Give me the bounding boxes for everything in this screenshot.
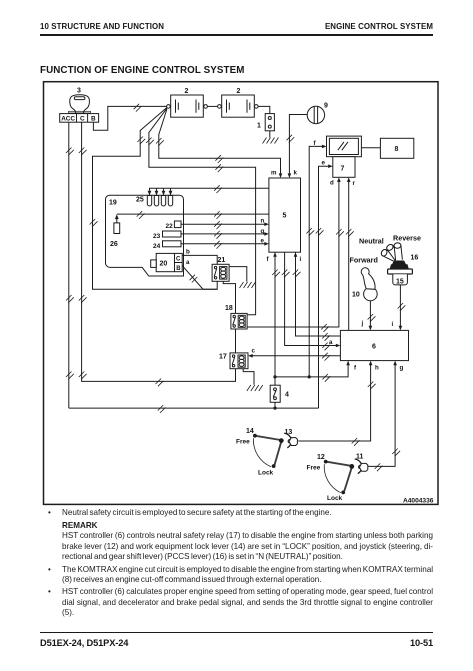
wire key B to battery terminal: [93, 104, 166, 130]
fuel control dial 10: [352, 268, 377, 301]
svg-text:Free: Free: [236, 439, 250, 446]
svg-text:e: e: [322, 160, 326, 167]
svg-text:20: 20: [160, 261, 168, 268]
svg-text:5: 5: [283, 213, 287, 220]
svg-text:e: e: [261, 238, 265, 245]
svg-text:f: f: [354, 365, 357, 372]
wire controller 5 middle pin to HST pin a: [282, 252, 341, 350]
junction wire y408 (ACC run to monitor e): [69, 405, 319, 413]
svg-text:22: 22: [166, 223, 174, 230]
header rule: [40, 34, 433, 36]
svg-text:16: 16: [411, 255, 419, 262]
fuse box 19 outline: [106, 195, 184, 276]
wire relay 21 coil to relay 18 contact: [223, 281, 235, 313]
svg-text:k: k: [294, 170, 298, 177]
svg-text:B: B: [91, 116, 96, 123]
svg-text:9: 9: [324, 103, 328, 110]
alternator 9: [307, 103, 328, 124]
wire monitor 7 pin f to junction: [306, 140, 326, 379]
monitor panel 7: [327, 136, 362, 177]
svg-text:21: 21: [218, 257, 226, 264]
footer right: [410, 638, 433, 648]
svg-text:m: m: [271, 170, 277, 177]
svg-text:B: B: [176, 266, 181, 272]
svg-text:C: C: [176, 257, 181, 263]
svg-text:14: 14: [246, 428, 254, 435]
wire 24 to pin e: [181, 238, 269, 249]
relay 17: [219, 353, 248, 369]
svg-text:8: 8: [395, 146, 399, 153]
wire HST pin h to switch 13: [298, 361, 379, 446]
svg-text:n: n: [261, 218, 265, 225]
wire 22 to pin n: [181, 218, 269, 230]
diagram frame: [44, 82, 439, 505]
svg-text:q: q: [261, 228, 265, 235]
svg-text:C: C: [80, 116, 85, 123]
svg-text:1: 1: [257, 123, 261, 130]
svg-text:c: c: [252, 348, 256, 355]
svg-text:2: 2: [185, 88, 189, 95]
wire HST pin g to switch 11: [368, 361, 404, 472]
svg-text:26: 26: [110, 241, 118, 248]
wire 26 to controller 5 left pin: [117, 211, 269, 219]
wire relay 21 coil to ground: [229, 267, 247, 282]
header right: [325, 22, 433, 31]
svg-text:Forward: Forward: [350, 256, 378, 265]
svg-text:23: 23: [153, 233, 161, 240]
ground below relay 21: [240, 282, 256, 288]
ground below relay 17: [247, 385, 263, 391]
svg-text:Reverse: Reverse: [393, 234, 421, 243]
work equipment lock lever 14 with switch 13: [236, 428, 297, 477]
wire key C rail to relay 17: [79, 122, 236, 386]
wire pin b of 20 to relay 21 contact: [182, 249, 217, 265]
engine controller 5: [269, 178, 301, 252]
svg-text:7: 7: [341, 166, 345, 173]
svg-text:Lock: Lock: [327, 495, 343, 502]
svg-text:4: 4: [285, 392, 289, 399]
svg-text:h: h: [375, 365, 379, 372]
relay 18: [225, 305, 247, 329]
svg-text:12: 12: [317, 454, 325, 461]
svg-text:18: 18: [225, 305, 233, 312]
wire 23 to pin q: [181, 228, 269, 239]
ground below fuse 1: [263, 131, 279, 144]
svg-text:d: d: [330, 180, 334, 187]
svg-text:25: 25: [136, 197, 144, 204]
svg-text:a: a: [186, 259, 190, 266]
wire battery link: [207, 105, 217, 107]
body text: [47, 508, 433, 618]
svg-text:r: r: [353, 180, 356, 187]
component 26: [110, 214, 120, 248]
svg-text:15: 15: [396, 279, 404, 286]
wire dial 10 to HST pin j: [361, 301, 376, 331]
wire monitor 7 to KOMTRAX 8: [361, 147, 380, 149]
switch 23: [153, 231, 181, 240]
wire fuse row to controller 5 left pin: [150, 185, 269, 193]
wire relay 18 contact to pin d of monitor 7: [247, 177, 344, 331]
battery 2 (right): [218, 88, 258, 117]
svg-text:f: f: [267, 256, 270, 263]
page title: [40, 65, 245, 76]
switch 24: [153, 241, 181, 250]
svg-text:b: b: [186, 249, 190, 256]
svg-text:Free: Free: [307, 465, 321, 472]
key switch terminal box ACC C B: [60, 114, 99, 123]
PCCS lever switch 15: [393, 274, 408, 285]
svg-text:ACC: ACC: [61, 116, 75, 123]
wire controller 5 pin f to switch 4: [267, 252, 281, 410]
wire alternator to pin k of controller 5: [287, 115, 308, 179]
svg-text:2: 2: [237, 88, 241, 95]
svg-text:a: a: [329, 339, 333, 346]
svg-text:i: i: [300, 256, 302, 263]
wire HST 6 to relay 17 coil (pin c): [248, 348, 340, 361]
svg-text:i: i: [392, 321, 394, 328]
svg-text:Neutral: Neutral: [359, 237, 384, 246]
wire relay 17 coil to ground: [243, 369, 254, 385]
parking brake lever 12 with switch 11: [307, 454, 368, 503]
wire key ACC rail: [66, 122, 74, 408]
svg-text:3: 3: [77, 88, 81, 95]
relay 21: [212, 257, 229, 282]
KOMTRAX terminal 8: [380, 138, 413, 158]
svg-text:6: 6: [372, 344, 376, 351]
svg-text:j: j: [361, 320, 364, 327]
wire switch 15 to HST pin i: [392, 285, 406, 331]
battery 2 (left): [167, 88, 208, 117]
fuse 1: [257, 114, 274, 131]
fuses 25: [136, 191, 173, 206]
footer rule: [40, 632, 433, 633]
junction wire y377 (HST pin f run): [275, 361, 357, 382]
neutral safety switch 4: [270, 385, 289, 402]
wire monitor 7 pin r to HST 6 top: [346, 177, 354, 330]
svg-text:17: 17: [219, 354, 227, 361]
svg-text:Lock: Lock: [258, 470, 274, 477]
wire controller 5 pin i to HST left: [293, 252, 341, 341]
switch 22: [166, 221, 182, 230]
wire battery fan 3 (to pin m of controller 5): [156, 109, 282, 178]
header left: [40, 22, 164, 31]
component 20 with pins C B: [151, 253, 183, 271]
svg-text:24: 24: [153, 243, 161, 250]
HST controller 6: [340, 330, 408, 360]
svg-text:10: 10: [352, 292, 360, 299]
footer left: [40, 638, 128, 648]
wire pin a of 20 to relay 21 contact bottom: [182, 259, 217, 289]
wire relay 18 to relay 17 contact: [235, 329, 237, 353]
svg-text:g: g: [400, 365, 404, 372]
key switch 3 head: [69, 95, 91, 113]
svg-text:19: 19: [109, 200, 117, 207]
joystick 16 knobs: [380, 243, 418, 264]
joystick 16 bellows and base: [388, 261, 413, 275]
wire battery fan 2 (to relay 18 coil): [146, 108, 256, 314]
wire battery fan 1 (to relay 21 supply rail): [90, 108, 218, 290]
svg-text:A4004336: A4004336: [403, 498, 434, 505]
wire battery right terminal to fuse 1: [258, 106, 270, 113]
wire monitor 7 pin e to ACC junction rail: [316, 160, 333, 409]
